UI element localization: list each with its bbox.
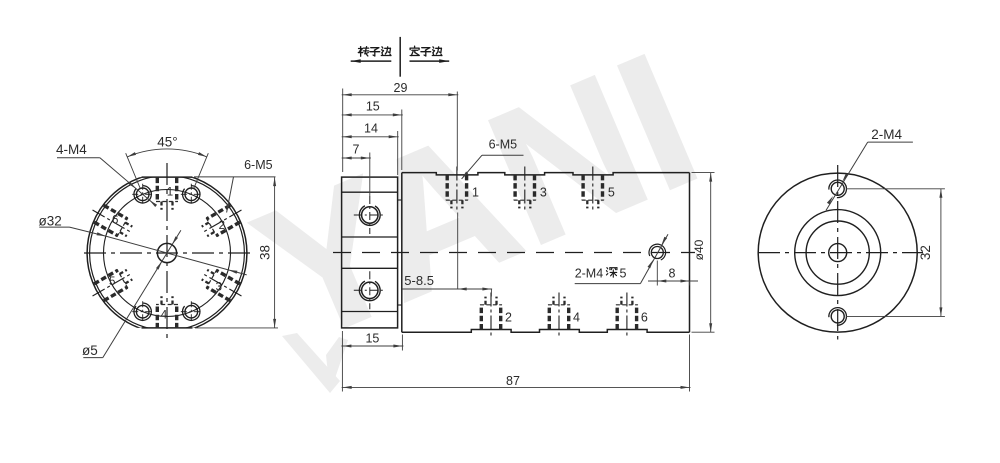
left view M5 tapped pattern ring 3 <box>196 263 247 305</box>
rotor side arrow <box>351 59 392 63</box>
svg-text:38: 38 <box>257 245 272 260</box>
stator ring 2 tapped hole <box>480 293 502 339</box>
stator body outline <box>402 173 690 333</box>
left view ring number 2 <box>219 220 225 232</box>
6-M5 middle leader <box>462 155 524 179</box>
right view M4 hole top <box>829 180 847 198</box>
side divider line <box>399 37 401 77</box>
2-M4 deep5 hole <box>649 244 666 260</box>
right view center hole <box>829 244 847 262</box>
label 6-M5 left view <box>244 158 273 172</box>
svg-text:3: 3 <box>216 281 222 293</box>
rotor side label zhuan-zi-bian <box>358 47 391 57</box>
svg-text:32: 32 <box>918 245 933 260</box>
middle view horizontal centerline <box>333 252 695 254</box>
dimension 14 <box>342 121 399 138</box>
svg-text:6: 6 <box>641 311 648 325</box>
4-M4 leader <box>57 158 157 207</box>
svg-text:6-M5: 6-M5 <box>244 158 273 172</box>
dimension 87 <box>342 374 691 389</box>
label phi32 <box>39 213 62 228</box>
left view bolt circle phi32 <box>104 190 231 317</box>
dimension 7 <box>342 143 371 160</box>
45deg dimension extension lines <box>126 153 209 188</box>
8 text <box>669 267 676 281</box>
svg-text:4: 4 <box>573 311 580 325</box>
2-M4 leader <box>826 142 913 210</box>
watermark YANI <box>229 12 724 393</box>
38 dimension <box>195 177 278 328</box>
6-M5 left leader <box>194 177 276 213</box>
svg-text:29: 29 <box>394 81 408 95</box>
svg-text:15: 15 <box>365 332 379 346</box>
svg-text:5: 5 <box>109 276 115 288</box>
left view top flat <box>142 176 193 178</box>
dimension 15 top <box>342 100 403 117</box>
32 text <box>918 245 933 260</box>
stator ring 4 tapped hole <box>548 293 570 339</box>
38 text <box>257 245 272 260</box>
stator side arrow <box>410 59 450 63</box>
stator side label ding-zi-bian <box>410 46 442 56</box>
label 6-M5 middle <box>489 138 518 152</box>
ring number 6 <box>641 311 648 325</box>
left view ring number 3 <box>216 281 222 293</box>
rotor flange inner line b <box>342 236 398 238</box>
dimension 5-8.5 <box>402 273 492 290</box>
label phi5 <box>82 343 98 358</box>
svg-text:3: 3 <box>540 185 547 199</box>
ring number 4 <box>573 311 580 325</box>
svg-text:87: 87 <box>506 374 520 388</box>
ring number 1 <box>472 185 479 199</box>
left view outer circle (flange OD with flats) <box>87 173 247 333</box>
left view horizontal centerline <box>84 252 255 254</box>
flange M4 hole lower <box>354 271 386 309</box>
32 dimension <box>846 189 945 317</box>
45deg text <box>157 135 177 150</box>
svg-text:2: 2 <box>505 311 512 325</box>
rotor flange inner line c <box>342 267 398 269</box>
rotor flange inner line d <box>342 311 398 313</box>
left view M4 hole 3 <box>181 301 202 322</box>
rotor flange outline <box>342 177 398 328</box>
svg-text:ø40: ø40 <box>692 239 706 260</box>
left view M4 hole 1 <box>132 184 153 205</box>
45deg dimension arc <box>127 149 207 157</box>
left view bottom flat <box>142 327 193 329</box>
svg-text:1: 1 <box>167 187 173 199</box>
left view M4 hole 2 <box>181 184 202 205</box>
phi32 leader <box>39 227 246 275</box>
phi40 dimension <box>692 173 715 333</box>
svg-text:2-M4: 2-M4 <box>871 127 902 142</box>
left view ring number 1 <box>167 187 173 199</box>
svg-text:2-M4: 2-M4 <box>575 266 604 280</box>
2-M4deep5 leader <box>575 234 668 283</box>
ring number 3 <box>540 185 547 199</box>
left view M5 tapped pattern ring 1 <box>156 178 178 210</box>
dimension 29 <box>342 81 459 97</box>
left view center hole phi5 <box>157 243 176 262</box>
svg-text:ø32: ø32 <box>39 213 62 228</box>
svg-text:8: 8 <box>669 267 676 281</box>
svg-text:5: 5 <box>620 266 627 280</box>
svg-text:7: 7 <box>353 143 360 157</box>
stator ring 5 tapped hole <box>582 167 604 213</box>
label 4-M4 <box>56 142 87 157</box>
stator ring 3 tapped hole <box>514 167 536 213</box>
dimension 15 bottom <box>341 332 403 348</box>
8 dimension <box>648 261 698 286</box>
left view vertical centerline <box>166 163 168 341</box>
ring number 5 <box>608 185 615 199</box>
phi40 text <box>692 239 706 260</box>
svg-text:ø5: ø5 <box>82 343 98 358</box>
svg-text:5: 5 <box>608 185 615 199</box>
svg-text:6: 6 <box>112 215 118 227</box>
svg-text:1: 1 <box>472 185 479 199</box>
rotor flange inner line a <box>342 191 398 193</box>
left view M4 hole 4 <box>132 301 153 322</box>
label 2-M4 <box>871 127 902 142</box>
left view M5 tapped pattern ring 2 <box>196 200 247 242</box>
left view M5 tapped pattern ring 6 <box>87 200 138 242</box>
label 2-M4deep5 <box>575 266 627 280</box>
left view ring number 5 <box>109 276 115 288</box>
left view M5 tapped pattern ring 5 <box>87 263 138 305</box>
right view circle inner <box>806 221 869 284</box>
extension lines middle view <box>342 89 689 392</box>
svg-text:6-M5: 6-M5 <box>489 138 518 152</box>
svg-text:5-8.5: 5-8.5 <box>404 273 434 288</box>
flange boss top line <box>398 199 402 201</box>
flange M4 hole upper <box>354 196 386 234</box>
ring number 2 <box>505 311 512 325</box>
left view M5 tapped pattern ring 4 <box>156 296 178 328</box>
flange boss bottom line <box>398 304 402 306</box>
svg-text:45°: 45° <box>157 135 177 150</box>
svg-text:14: 14 <box>364 121 378 135</box>
svg-text:4: 4 <box>161 310 168 322</box>
svg-text:15: 15 <box>366 100 380 114</box>
stator ring 6 tapped hole <box>616 293 638 339</box>
right view outer circle <box>758 173 917 332</box>
svg-text:4-M4: 4-M4 <box>56 142 87 157</box>
phi5 leader <box>83 230 181 357</box>
right view horizontal centerline <box>758 252 923 254</box>
right view circle mid <box>795 210 881 296</box>
right view M4 hole bottom <box>829 308 847 326</box>
left view ring number 4 <box>161 310 168 322</box>
right view vertical centerline <box>837 165 839 340</box>
svg-text:2: 2 <box>219 220 225 232</box>
stator ring 1 tapped hole <box>446 167 468 213</box>
left view ring number 6 <box>112 215 118 227</box>
